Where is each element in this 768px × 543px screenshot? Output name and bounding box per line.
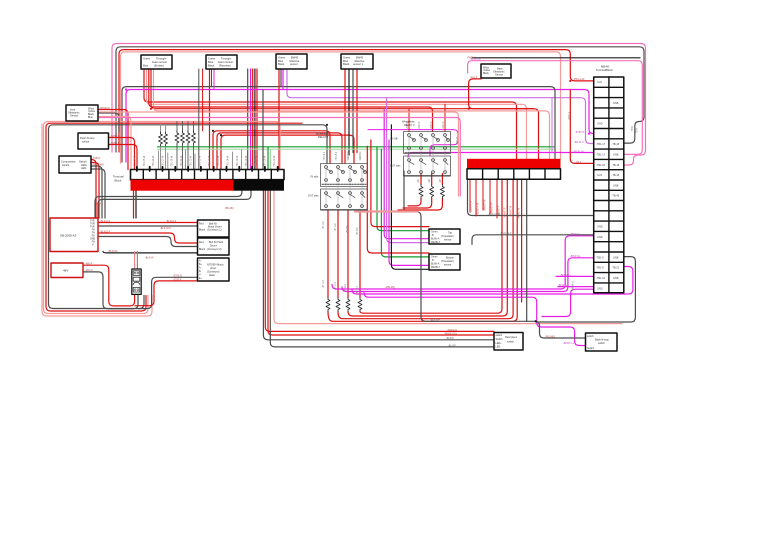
svg-text:-WENN-F: -WENN-F [348, 150, 350, 161]
svg-text:Black: Black [343, 62, 350, 66]
svg-text:-TB-22: -TB-22 [612, 267, 620, 270]
svg-text:-TB1-17: -TB1-17 [596, 154, 606, 157]
through-beam sensor (emitter) box [141, 55, 172, 69]
svg-text:-MW-45(): -MW-45() [385, 286, 395, 289]
svg-text:-TB-18: -TB-18 [612, 143, 620, 146]
svg-text:-PW1-A: -PW1-A [568, 111, 571, 120]
wire red TB2 short drop d [489, 179, 491, 214]
resistor bank above TB1 [159, 131, 196, 146]
svg-text:-TB1-06-W: -TB1-06-W [153, 155, 155, 167]
wire red 48v to fuse [83, 265, 135, 306]
svg-text:-48V-N: -48V-N [85, 269, 93, 272]
wire magenta bottom to table a [332, 236, 594, 289]
svg-text:-BPW1-LL: -BPW1-LL [563, 342, 575, 345]
svg-text:A-: A- [199, 260, 202, 263]
wire light green main [158, 148, 555, 150]
wire salmon front sensor down [98, 117, 131, 170]
svg-text:GNB: GNB [613, 277, 619, 280]
svg-text:IN side: IN side [311, 176, 319, 179]
MB-48 terminal block table [594, 65, 624, 293]
wire black K1 to bottom sensor [391, 125, 429, 269]
svg-text:-BT-C-F: -BT-C-F [323, 279, 325, 288]
svg-text:-PW1-F: -PW1-F [419, 120, 421, 129]
wire red vertical cluster [252, 69, 254, 170]
LABELS-LAYER [0, 0, 1, 1]
svg-text:(Conveyor 1): (Conveyor 1) [207, 229, 222, 232]
svg-text:-M1: -M1 [418, 178, 420, 183]
svg-text:TVR: TVR [90, 224, 95, 226]
wire red pushstop down a [109, 138, 135, 170]
svg-text:48V: 48V [63, 269, 68, 273]
svg-text:-BLK01F: -BLK01F [108, 250, 118, 253]
wire gray fuse to nitgen b [138, 277, 198, 308]
resistor bank below relay K2 [419, 185, 444, 199]
svg-text:-BP-21-F-: -BP-21-F- [574, 141, 585, 144]
svg-text:sensor: sensor [444, 264, 452, 267]
wire gray TB1 black-sect to switchbox a [263, 191, 494, 340]
back ultrasonic sensor box [481, 64, 511, 78]
svg-text:-BT-D-F: -BT-D-F [357, 285, 359, 294]
wire gray sensor stub [280, 69, 282, 87]
svg-text:-BTB-15-: -BTB-15- [575, 131, 585, 134]
svg-text:switch: switch [496, 334, 503, 337]
wire salmon long bottom [274, 191, 622, 324]
svg-text:Green: Green [431, 256, 438, 259]
wire red compuwave b [91, 163, 99, 219]
motor driver box (conveyor 1) [198, 220, 230, 237]
wire magenta vertical cluster [250, 69, 252, 170]
wire red vertical cluster b [256, 69, 258, 170]
wire green to top sensor [377, 147, 429, 231]
svg-text:-NABY-F: -NABY-F [110, 135, 120, 138]
wire red top run [119, 50, 594, 152]
svg-text:-TB1-11-W: -TB1-11-W [200, 155, 202, 167]
wire magenta K2 wrap [368, 130, 458, 156]
svg-text:-TB1-10-W: -TB1-10-W [190, 155, 192, 167]
wire red fuse to nitgen a [135, 281, 198, 306]
svg-text:-TB1-07-W: -TB1-07-W [162, 155, 164, 167]
svg-text:-BLK02-F: -BLK02-F [100, 230, 111, 233]
wire pink front sensor to K2 area [98, 118, 460, 197]
wire red TB2 short drop e2 [496, 179, 498, 218]
wire black vertical cluster [254, 69, 256, 170]
svg-text:Block: Block [115, 179, 122, 183]
svg-text:-TB1-12-W: -TB1-12-W [209, 155, 211, 167]
wire red TB1 black-sect to switchbox b [268, 191, 494, 335]
wire salmon emitter to TB2 b [154, 69, 550, 159]
svg-text:YY-GB: YY-GB [390, 138, 398, 141]
svg-text:-TB1-17-W: -TB1-17-W [255, 155, 257, 167]
wire red sensor1 drop [344, 69, 346, 164]
svg-text:-BPW-N-L: -BPW-N-L [570, 255, 582, 258]
wire gray compuwave a [91, 166, 102, 218]
wire gray sensor1 drop [348, 69, 350, 155]
wire gray receiver long drop [198, 69, 200, 170]
svg-text:-TB-18: -TB-18 [612, 174, 620, 177]
wire red K2 top stubs [409, 104, 445, 131]
wire salmon fuse to SB [134, 252, 136, 270]
wire black TB1 drop to SB [135, 191, 137, 218]
svg-text:-TB1-09-W: -TB1-09-W [181, 155, 183, 167]
svg-text:-BLNK-A-W: -BLNK-A-W [470, 200, 473, 213]
wire magenta bottom to switch G [364, 293, 586, 346]
svg-text:-TB1-16-W: -TB1-16-W [246, 155, 248, 167]
svg-text:sensor: sensor [444, 239, 452, 242]
wire gray long run [122, 87, 555, 162]
wire black SB to driver2 [103, 252, 198, 253]
svg-text:Sensor: Sensor [495, 73, 503, 77]
wire gray left loop [49, 125, 328, 309]
wire green to bottom sensor [381, 149, 429, 257]
svg-text:Black: Black [199, 248, 206, 251]
svg-text:-TNB-N: -TNB-N [92, 157, 100, 160]
svg-text:-MW-BT-F: -MW-BT-F [505, 207, 507, 218]
relay K1 label [308, 132, 329, 198]
wire gray TB1 to SB b [98, 191, 251, 218]
svg-text:-TB-45: -TB-45 [612, 195, 620, 198]
wire red K2 resistor lead b [403, 174, 432, 209]
hand piece switch box [494, 333, 523, 351]
svg-text:Hard piece: Hard piece [505, 336, 518, 339]
wire red compuwave a [91, 160, 96, 219]
wire gray fuse to SB [136, 252, 138, 270]
svg-text:-TB1-04-W: -TB1-04-W [135, 155, 137, 167]
svg-text:-BPW-LL: -BPW-LL [573, 280, 575, 290]
wire salmon left loop [44, 122, 281, 314]
wire red sensor1 drop b [352, 69, 354, 153]
svg-text:Wirelelless: Wirelelless [316, 132, 329, 136]
terminal block TB2 (red top) [467, 159, 561, 179]
relay K1 K2 top rotated labels [324, 120, 445, 183]
svg-text:-BT-B-F: -BT-B-F [357, 226, 359, 235]
svg-text:-48V-F: -48V-F [85, 263, 93, 266]
wire gray TB2 to table [468, 179, 594, 215]
wire magenta K2 to table [408, 153, 594, 158]
svg-text:MB-48: MB-48 [601, 65, 609, 69]
relay K1 contact bank [321, 164, 368, 211]
svg-text:Green: Green [143, 57, 151, 61]
svg-text:Sensor: Sensor [70, 114, 78, 118]
svg-text:-BT-A-F: -BT-A-F [334, 222, 337, 231]
reflective sensor box (conveyor A) [276, 54, 307, 69]
wire gray sensorbox to table [472, 235, 594, 245]
reflective sensor box (conveyor 1) [341, 54, 373, 69]
wire magenta bottom to table c [352, 267, 633, 295]
svg-text:GND: GND [597, 287, 603, 290]
wire red R to TB2 c [338, 179, 513, 319]
svg-text:-BPW4-LL: -BPW4-LL [560, 274, 572, 277]
svg-text:black: black [209, 274, 216, 277]
compuwave switch box [59, 156, 91, 173]
svg-text:(Receiver): (Receiver) [219, 64, 231, 68]
svg-text:-TB1-B-F: -TB1-B-F [336, 151, 338, 161]
svg-text:-TB1-13-W: -TB1-13-W [218, 155, 220, 167]
svg-text:RELAY 1: RELAY 1 [318, 135, 329, 139]
wire red K2 resistor lead a [408, 174, 421, 206]
svg-text:LED-: LED- [81, 166, 87, 170]
svg-text:TVR: TVR [90, 227, 95, 229]
wire gray top loop [116, 47, 644, 152]
svg-text:-TB-18: -TB-18 [612, 164, 620, 167]
svg-text:-M3: -M3 [440, 178, 442, 183]
relay K2 label [390, 120, 415, 168]
push-n-stop switch box [78, 133, 109, 149]
wire magenta table bottom drop [542, 289, 594, 316]
svg-text:-WAVE-N: -WAVE-N [447, 329, 457, 332]
svg-text:Green: Green [431, 231, 438, 234]
fuse holder [132, 269, 141, 294]
svg-text:-BLK-02-F: -BLK-02-F [160, 227, 172, 230]
svg-text:-TB1-15-W: -TB1-15-W [237, 155, 239, 167]
svg-text:(Emitter): (Emitter) [154, 64, 164, 68]
wire red sensor1 drop c [356, 69, 358, 153]
wire violet K1 to top sensor [387, 98, 429, 243]
TB1 top rotated pin labels [135, 155, 277, 167]
wire gray TB2 long drop [526, 179, 528, 321]
wire gray TB1 black-sect to switchbox b [270, 191, 494, 347]
relay K2 contact bank [404, 132, 451, 177]
svg-text:-TB-N: -TB-N [637, 128, 639, 134]
wire gray table to switch G right [537, 257, 635, 322]
wire red TB2 to table [570, 90, 593, 163]
wire gray compuwave b [91, 169, 105, 218]
wire salmon top run [121, 52, 561, 163]
wire red TB1 to relay K1 a [213, 131, 330, 170]
svg-text:-WENN-F: -WENN-F [360, 150, 362, 161]
svg-text:Push-N-stop: Push-N-stop [80, 136, 95, 140]
svg-text:-5700-F: -5700-F [173, 278, 182, 281]
svg-text:sensor: sensor [290, 62, 298, 66]
svg-text:-PW1-A-W: -PW1-A-W [573, 78, 585, 81]
wire red SB to driver1 [98, 222, 198, 224]
wire red R to TB2 d [328, 179, 517, 321]
svg-text:MB-48(): MB-48() [225, 207, 234, 210]
NITGEN motor driver box [198, 258, 230, 281]
terminal block TB1 [131, 167, 285, 191]
wire green TB1 stub a [267, 147, 269, 170]
wire red TB1 to relay K1 b [217, 133, 342, 170]
top travelator sensor box [429, 229, 460, 244]
motor driver box (conveyor 2) [198, 238, 230, 255]
wire gray front sensor down [98, 113, 119, 132]
svg-text:Black: Black [278, 62, 285, 66]
svg-text:-BT-A-F: -BT-A-F [322, 220, 325, 229]
wire magenta bottom to table b [342, 258, 594, 292]
svg-text:-TB1-47: -TB1-47 [94, 203, 103, 206]
svg-text:-TB1-18-W: -TB1-18-W [265, 155, 267, 167]
svg-text:switch: switch [598, 342, 606, 345]
svg-text:BLNK-A: BLNK-A [431, 263, 440, 266]
wire gray receiver stub [211, 69, 213, 87]
wire red TB1 to relay K1 c [221, 135, 354, 169]
svg-text:-BT-B-F: -BT-B-F [347, 224, 349, 233]
svg-text:-MLK-01-W: -MLK-01-W [488, 213, 501, 216]
svg-text:-BLK-N-F: -BLK-N-F [430, 319, 441, 322]
svg-text:LED-: LED- [496, 346, 502, 349]
svg-text:-TB1-8: -TB1-8 [596, 267, 604, 270]
svg-text:-PW1-B: -PW1-B [457, 136, 459, 145]
svg-text:A-: A- [199, 267, 202, 270]
svg-text:-TH: -TH [91, 233, 95, 235]
rotated labels near table right [457, 111, 639, 290]
wire red R to TB2 a [360, 179, 502, 313]
svg-text:-WAVE-SOL: -WAVE-SOL [444, 332, 458, 335]
svg-text:GND: GND [597, 123, 603, 126]
wire magenta receiver stub [213, 69, 215, 90]
svg-text:-TB1-05-W: -TB1-05-W [144, 155, 146, 167]
resistor bank leads [161, 125, 166, 170]
svg-text:Red: Red [199, 241, 204, 244]
svg-text:-BLK01-F: -BLK01-F [166, 220, 177, 223]
svg-text:OUT side: OUT side [308, 195, 319, 198]
COMPONENTS-LAYER [50, 54, 624, 351]
wire red emitter to relay K2 b [149, 69, 433, 132]
relay K1 bottom rotated labels [322, 220, 359, 294]
svg-text:WENN-T: WENN-T [431, 267, 441, 269]
svg-text:-TNBT-WN: -TNBT-WN [92, 163, 104, 166]
svg-text:-PUSH01: -PUSH01 [545, 335, 556, 338]
svg-text:Compuwave: Compuwave [61, 160, 76, 164]
wire gray 48v to fuse [83, 272, 138, 309]
svg-text:switch: switch [82, 140, 90, 144]
wire red TB2 short drop a [469, 179, 471, 212]
wire gray TB1 to SB a [95, 191, 242, 218]
wire red backsensor loop [469, 79, 534, 109]
wire red K1 column to R c [347, 210, 349, 298]
svg-text:V-: V- [92, 245, 94, 247]
svg-text:-M2: -M2 [429, 178, 431, 183]
wire magenta K1 to bottom sensor [389, 140, 429, 265]
svg-text:-DA-2: -DA-2 [575, 161, 582, 164]
wire red TB1 drop to SB [133, 191, 135, 218]
svg-text:SB-2000-A3: SB-2000-A3 [60, 234, 77, 238]
svg-text:TerminalBlock: TerminalBlock [596, 68, 613, 72]
svg-text:WENN-T: WENN-T [431, 242, 441, 244]
svg-text:V-: V- [199, 275, 201, 277]
wire gray vertical cluster [247, 69, 249, 170]
svg-text:-MW-BT-W: -MW-BT-W [485, 199, 487, 211]
svg-text:GNB: GNB [613, 102, 619, 105]
wire red SB to driver2 [98, 233, 198, 243]
wire green main [158, 146, 555, 148]
svg-text:-TH: -TH [91, 242, 95, 244]
svg-text:-BLNK-A-W: -BLNK-A-W [477, 202, 480, 215]
wire pink top loop [112, 44, 646, 166]
svg-text:-MW-BT-W: -MW-BT-W [511, 205, 513, 217]
svg-text:Blue: Blue [208, 60, 214, 64]
svg-text:B-: B- [199, 271, 202, 273]
svg-text:Switch: Switch [587, 347, 595, 350]
wire red receiver drop b [202, 69, 204, 131]
wire pink backsensor loop [468, 61, 643, 155]
wire red K1 to top sensor [371, 140, 429, 227]
wire name labels horizontal [85, 57, 585, 339]
wire salmon outer loop [42, 124, 152, 316]
wire red TB2 short drop c [482, 179, 484, 210]
svg-text:-BPW-N-L: -BPW-N-L [570, 233, 582, 236]
wire gray TB1 short stubs [159, 150, 242, 170]
wire salmon K2 resistor bus [355, 210, 418, 212]
SB-2000 controller box [50, 218, 98, 252]
svg-text:-BPW4-W: -BPW4-W [470, 58, 481, 61]
svg-text:S-IN: S-IN [597, 81, 602, 84]
svg-text:-BT-C-F: -BT-C-F [335, 281, 337, 290]
wire red R to TB2 b [348, 179, 507, 316]
wire red front sensor down [98, 110, 128, 170]
svg-text:-BLK01-F: -BLK01-F [100, 220, 111, 223]
svg-text:-BT-D-F: -BT-D-F [345, 283, 347, 292]
svg-text:-BP-PL-W: -BP-PL-W [573, 151, 585, 154]
svg-text:Black: Black [483, 72, 490, 75]
svg-text:-MLK-01-F: -MLK-01-F [500, 232, 512, 235]
svg-text:-TH: -TH [91, 230, 95, 232]
through-beam sensor (receiver) box [206, 55, 237, 69]
wire salmon front sensor to K2 area [98, 112, 459, 196]
resistor bank bottom center [326, 298, 362, 312]
wire red emitter to TB2 [151, 69, 539, 159]
wire magenta long run [126, 90, 594, 163]
wire red emitter to relay K2 [144, 69, 517, 159]
wire red receiver drop [209, 69, 211, 170]
svg-text:-TB1-14-W: -TB1-14-W [228, 155, 230, 167]
svg-text:Red: Red [199, 223, 204, 226]
svg-text:GND: GND [597, 236, 603, 239]
svg-text:GNB: GNB [613, 184, 619, 187]
wire red K1 column to R d [359, 210, 361, 298]
svg-text:-TB-N: -TB-N [632, 126, 634, 132]
wire magenta table stub b [558, 286, 594, 288]
svg-text:Black: Black [199, 229, 206, 232]
svg-text:-TB1-5: -TB1-5 [596, 256, 604, 259]
back-n-stop switch box [586, 333, 618, 351]
svg-text:beam sensor: beam sensor [218, 60, 233, 64]
svg-text:beam sensor: beam sensor [152, 60, 167, 64]
svg-text:-BLKW: -BLKW [446, 337, 454, 340]
svg-text:-TB1-10: -TB1-10 [596, 277, 606, 280]
svg-text:-BPW1-LL: -BPW1-LL [558, 284, 570, 287]
svg-text:-PA1-F: -PA1-F [470, 76, 478, 79]
wire magenta stub sensor [282, 69, 284, 90]
svg-text:BLNK-A: BLNK-A [431, 238, 440, 241]
svg-text:-TB1-19-W: -TB1-19-W [274, 155, 276, 167]
WIRES-LAYER [42, 44, 646, 347]
svg-text:-TB1-02: -TB1-02 [596, 164, 606, 167]
svg-text:-TH: -TH [91, 236, 95, 238]
wire red TB2 drop e [521, 179, 523, 302]
svg-text:-TB1-17: -TB1-17 [596, 143, 606, 146]
svg-text:switch: switch [62, 163, 70, 167]
svg-text:Black: Black [208, 64, 215, 68]
svg-text:Blue: Blue [88, 116, 93, 119]
wire red K1 column to R a [327, 210, 329, 298]
svg-text:S-IN: S-IN [597, 174, 602, 177]
svg-text:switch: switch [587, 335, 594, 338]
svg-text:-TB1-08-W: -TB1-08-W [172, 155, 174, 167]
svg-text:-MW-BT-W: -MW-BT-W [519, 207, 521, 219]
wire gray switch G left run [404, 171, 586, 338]
svg-text:sensor 1: sensor 1 [353, 62, 364, 66]
svg-text:-5700-N: -5700-N [173, 275, 182, 278]
svg-text:-PW1-F: -PW1-F [431, 120, 433, 129]
svg-text:(Conveyor 2): (Conveyor 2) [207, 248, 222, 251]
wire red K1 column to R b [337, 210, 339, 298]
svg-text:OUT side: OUT side [390, 165, 401, 168]
LABEL-TEXTURE [85, 57, 639, 348]
wire magenta table stub a [556, 275, 594, 277]
svg-text:Switch: Switch [496, 338, 504, 341]
wire red pushstop down b [109, 145, 138, 170]
svg-text:GNB: GNB [613, 256, 619, 259]
